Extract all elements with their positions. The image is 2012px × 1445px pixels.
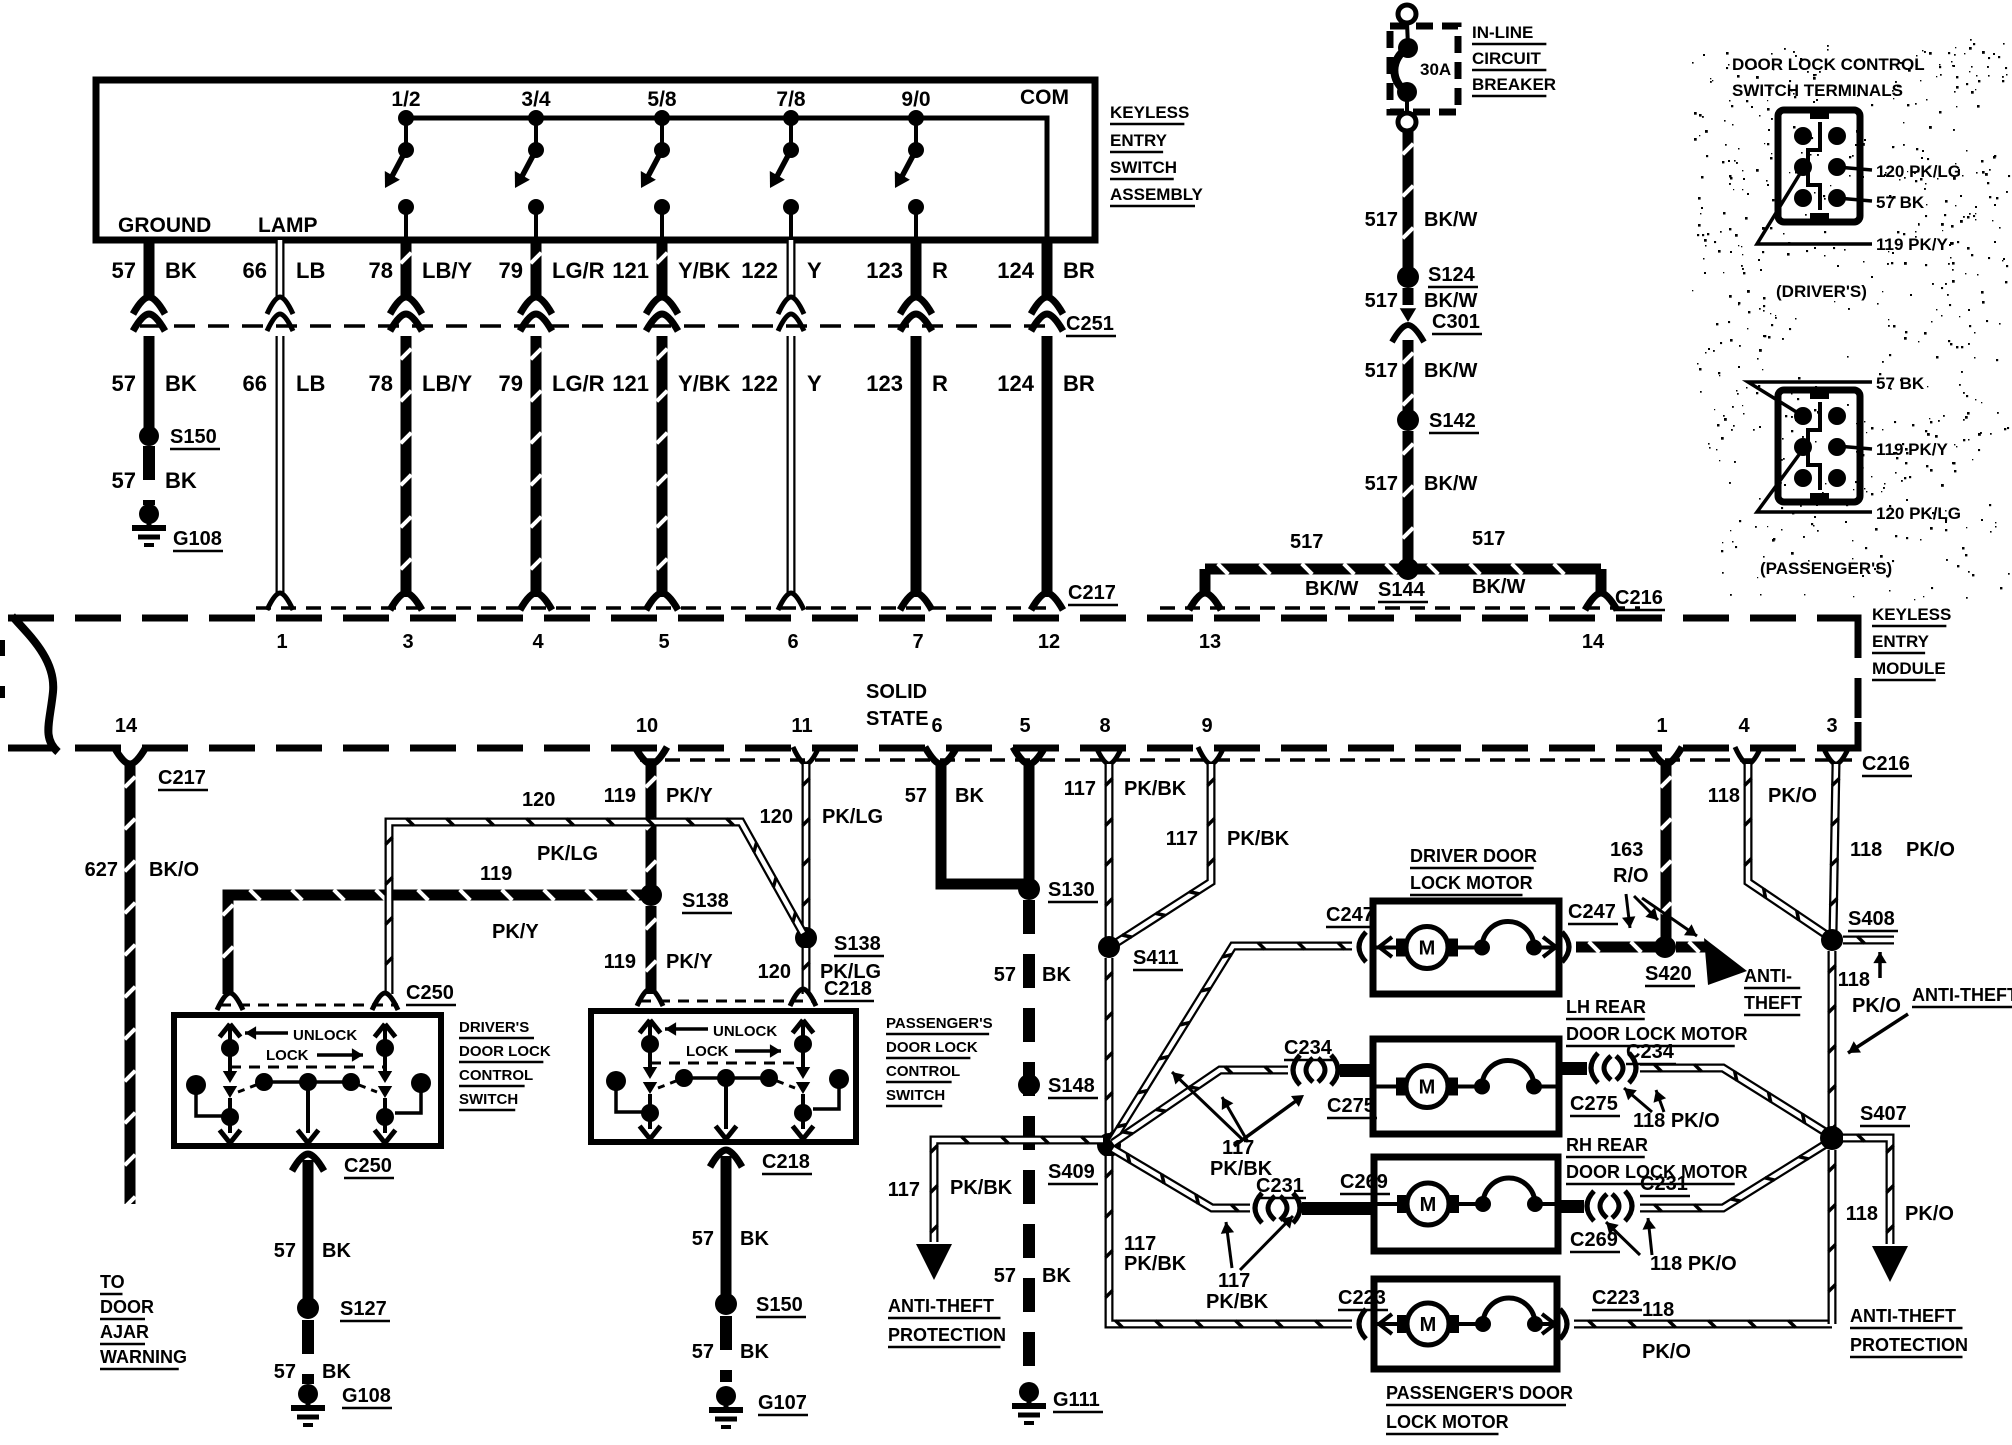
module pin 14 bottom xyxy=(114,715,146,764)
svg-text:117: 117 xyxy=(888,1179,920,1201)
splice S148 xyxy=(1018,1074,1098,1098)
label 57 BK xyxy=(112,468,197,493)
svg-text:BK/W: BK/W xyxy=(1424,360,1477,382)
svg-text:LG/R: LG/R xyxy=(552,258,605,283)
svg-text:LB: LB xyxy=(296,258,325,283)
svg-text:163: 163 xyxy=(1610,839,1643,861)
wire 120 PK/LG S138 to passenger switch xyxy=(802,948,809,994)
svg-text:DOOR LOCK CONTROL: DOOR LOCK CONTROL xyxy=(1732,55,1925,74)
RH rear door lock motor M xyxy=(1374,1157,1558,1251)
module pin 4 bottom xyxy=(1735,715,1761,764)
label 57 BK row2 xyxy=(112,371,197,396)
svg-text:1: 1 xyxy=(276,631,287,653)
label LAMP xyxy=(258,214,318,237)
label 121 Y/BK row1 xyxy=(612,258,730,283)
wire 78 LB/Y upper segment xyxy=(401,240,412,298)
svg-text:BK/W: BK/W xyxy=(1305,578,1358,600)
svg-text:C275: C275 xyxy=(1570,1093,1618,1115)
svg-text:S127: S127 xyxy=(340,1298,387,1320)
connector C217 terminal wire 121 xyxy=(646,593,678,610)
switch 7/8 xyxy=(770,88,806,240)
svg-text:124: 124 xyxy=(997,371,1034,396)
svg-text:PK/BK: PK/BK xyxy=(950,1177,1013,1199)
svg-text:119 PK/Y: 119 PK/Y xyxy=(1876,235,1948,254)
switch common bus xyxy=(406,118,1047,240)
svg-text:118: 118 xyxy=(1850,839,1882,861)
connector C234/C275 right xyxy=(1559,1041,1676,1116)
svg-text:CONTROL: CONTROL xyxy=(459,1067,533,1084)
ground G111 xyxy=(1012,1382,1103,1423)
svg-text:1: 1 xyxy=(1656,715,1667,737)
connector C217 terminal wire 122 xyxy=(778,593,804,610)
label (PASSENGER'S) xyxy=(1760,559,1892,578)
svg-text:G107: G107 xyxy=(758,1392,807,1414)
wire 118 PK/O LH motor to S407 xyxy=(1640,1064,1830,1135)
splice S138 on 120 PK/LG xyxy=(795,927,884,956)
module pin 5 xyxy=(658,631,669,653)
wire 57 BK passenger switch to S150 xyxy=(721,1156,732,1296)
wire 123 R lower segment xyxy=(911,336,922,597)
svg-text:PROTECTION: PROTECTION xyxy=(1850,1335,1968,1355)
connector C217 terminal wire 123 xyxy=(900,593,932,610)
label 122 Y row2 xyxy=(741,371,822,396)
svg-text:BK: BK xyxy=(322,1361,351,1383)
svg-text:118: 118 xyxy=(1708,785,1740,807)
module pin 4 xyxy=(532,631,544,653)
svg-text:Y: Y xyxy=(807,258,822,283)
wire 57 BK pin 6 xyxy=(941,764,1034,884)
label 66 LB row2 xyxy=(243,371,326,396)
driver switch left terminal xyxy=(220,1024,241,1057)
connector C216 dashed line top xyxy=(1160,606,1640,610)
label SOLID STATE xyxy=(866,681,929,730)
driver switch outer contacts xyxy=(186,1073,431,1116)
keyless entry module outline top xyxy=(8,615,1858,622)
wire 117 PK/BK S409 to driver door motor xyxy=(1112,942,1352,1141)
svg-text:ANTI-THEFT: ANTI-THEFT xyxy=(1850,1306,1956,1326)
svg-text:S407: S407 xyxy=(1860,1103,1907,1125)
connector C250 bottom of driver switch xyxy=(292,1154,394,1178)
keyless entry module left brace xyxy=(12,616,58,752)
svg-text:57: 57 xyxy=(994,964,1016,986)
connector C217 terminal wire 78 xyxy=(390,593,422,610)
svg-text:BK: BK xyxy=(165,371,197,396)
svg-text:57: 57 xyxy=(274,1361,296,1383)
svg-text:Y/BK: Y/BK xyxy=(678,258,731,283)
label driver door lock control switch xyxy=(459,1019,551,1110)
svg-text:C223: C223 xyxy=(1592,1287,1640,1309)
svg-text:UNLOCK: UNLOCK xyxy=(293,1027,357,1044)
splice S142 xyxy=(1397,409,1479,433)
svg-text:C247: C247 xyxy=(1326,904,1374,926)
module pin 11 bottom xyxy=(791,715,819,764)
driver switch middle dashed line xyxy=(230,1066,385,1069)
module pin 6 xyxy=(787,631,798,653)
svg-text:(DRIVER'S): (DRIVER'S) xyxy=(1776,282,1867,301)
wire 627 BK/O pin 14 xyxy=(125,764,136,1207)
svg-text:RH REAR: RH REAR xyxy=(1566,1135,1648,1155)
svg-text:(PASSENGER'S): (PASSENGER'S) xyxy=(1760,559,1892,578)
svg-text:GROUND: GROUND xyxy=(118,214,211,237)
wire 57 BK to S150 xyxy=(144,336,155,428)
svg-text:6: 6 xyxy=(787,631,798,653)
connector C223 left xyxy=(1338,1287,1392,1339)
svg-text:CIRCUIT: CIRCUIT xyxy=(1472,49,1542,68)
connector C216/C217 dashed line (module bottom) xyxy=(640,758,1852,762)
svg-text:117: 117 xyxy=(1166,828,1198,850)
wire 119 PK/Y S138 to passenger switch xyxy=(646,906,657,994)
svg-text:LH REAR: LH REAR xyxy=(1566,997,1646,1017)
svg-text:57: 57 xyxy=(112,468,136,493)
module pin 5 bottom xyxy=(1013,715,1045,764)
label 122 Y row1 xyxy=(741,258,822,283)
keyless entry module outline right xyxy=(1826,618,1858,748)
svg-text:6: 6 xyxy=(931,715,942,737)
svg-text:517: 517 xyxy=(1365,290,1398,312)
svg-text:LOCK MOTOR: LOCK MOTOR xyxy=(1410,873,1533,893)
label 66 LB row1 xyxy=(243,258,326,283)
svg-text:UNLOCK: UNLOCK xyxy=(713,1023,777,1040)
label 57 BK xyxy=(274,1240,352,1262)
svg-text:117: 117 xyxy=(1218,1270,1250,1292)
wire 57 BK pin 5 xyxy=(1024,764,1035,882)
label 517 right xyxy=(1472,528,1505,550)
splice S144 xyxy=(1378,558,1428,602)
module pin 3 bottom xyxy=(1823,715,1849,764)
module pin 6 bottom xyxy=(925,715,957,764)
connector C251 terminals wire 123 xyxy=(900,297,932,331)
anti-theft arrowhead right xyxy=(1704,938,1747,985)
connector C251 terminals wire 121 xyxy=(646,297,678,331)
svg-text:119: 119 xyxy=(604,951,636,973)
svg-text:CONTROL: CONTROL xyxy=(886,1063,960,1080)
passenger switch center pole xyxy=(716,1078,737,1139)
wire 66 LB upper segment xyxy=(276,240,285,298)
connector C217 terminal wire 124 xyxy=(1031,593,1063,610)
svg-text:13: 13 xyxy=(1199,631,1221,653)
svg-text:PK/LG: PK/LG xyxy=(822,806,883,828)
wire 119 PK/Y horizontal branch xyxy=(223,890,651,994)
label 517 BK/W xyxy=(1365,290,1478,312)
svg-text:117: 117 xyxy=(1222,1137,1254,1159)
svg-text:121: 121 xyxy=(612,371,649,396)
svg-text:123: 123 xyxy=(866,258,903,283)
driver door lock motor M xyxy=(1373,901,1559,994)
svg-text:C223: C223 xyxy=(1338,1287,1386,1309)
svg-text:122: 122 xyxy=(741,258,778,283)
svg-text:5/8: 5/8 xyxy=(647,88,677,111)
svg-text:117: 117 xyxy=(1064,778,1096,800)
label ANTI-THEFT right xyxy=(1912,985,2012,1007)
label 163 R/O with arrows xyxy=(1610,839,1697,936)
wire 121 Y/BK lower segment xyxy=(657,336,668,597)
edge artifact marks xyxy=(0,640,5,698)
label 120 PK/LG xyxy=(760,806,884,828)
module pin 14 stub xyxy=(1585,569,1617,610)
svg-text:5: 5 xyxy=(1019,715,1030,737)
label 118 PK/O pin3 xyxy=(1850,839,1955,861)
svg-text:COM: COM xyxy=(1020,86,1069,109)
svg-text:PK/BK: PK/BK xyxy=(1206,1291,1269,1313)
label 120 horizontal xyxy=(522,789,555,811)
connector C251 terminals wire 79 xyxy=(520,297,552,331)
module pin 14 number top xyxy=(1582,631,1605,653)
svg-text:118: 118 xyxy=(1846,1203,1878,1225)
wire 117 PK/BK S409 to passenger door motor xyxy=(1105,1156,1352,1328)
label 517 BK/W xyxy=(1365,473,1478,495)
svg-text:STATE: STATE xyxy=(866,708,929,730)
svg-text:S409: S409 xyxy=(1048,1161,1095,1183)
svg-text:57: 57 xyxy=(274,1240,296,1262)
splice S127 xyxy=(297,1297,390,1321)
label (DRIVER'S) xyxy=(1776,282,1867,301)
wire 118 PK/O passenger motor to S407 xyxy=(1574,1320,1832,1327)
svg-text:WARNING: WARNING xyxy=(100,1347,187,1367)
label 57 BK xyxy=(692,1341,770,1363)
svg-text:C218: C218 xyxy=(762,1151,810,1173)
svg-text:78: 78 xyxy=(369,258,393,283)
splice S124 xyxy=(1397,264,1478,288)
splice S150 passenger xyxy=(715,1293,806,1317)
passenger switch outer contacts xyxy=(606,1069,849,1112)
wire 117 PK/BK anti-theft branch xyxy=(930,1136,1103,1242)
connector C251 dashed line xyxy=(140,324,1058,328)
label RH REAR DOOR LOCK MOTOR xyxy=(1566,1135,1748,1184)
label 79 LG/R row2 xyxy=(499,371,605,396)
label DOOR LOCK CONTROL SWITCH TERMINALS xyxy=(1732,55,1925,100)
label 118 PK/O with arrows (C234) xyxy=(1624,1088,1720,1132)
connector C251 terminals wire 124 xyxy=(1031,297,1063,331)
bus wire 517 BK/W S144 xyxy=(1205,564,1601,575)
svg-text:S130: S130 xyxy=(1048,879,1095,901)
svg-text:57: 57 xyxy=(692,1228,714,1250)
driver door lock control switch box xyxy=(174,1015,441,1146)
label 627 BK/O xyxy=(85,859,199,881)
label 123 R row2 xyxy=(866,371,948,396)
label 517 BK/W xyxy=(1365,209,1478,231)
svg-text:120: 120 xyxy=(522,789,555,811)
connector C251 terminals wire 66 xyxy=(267,297,293,331)
svg-text:LB/Y: LB/Y xyxy=(422,371,472,396)
svg-text:9/0: 9/0 xyxy=(901,88,930,111)
svg-text:KEYLESS: KEYLESS xyxy=(1110,103,1189,122)
svg-text:C250: C250 xyxy=(406,982,454,1004)
switch 9/0 xyxy=(895,88,931,240)
svg-text:PK/O: PK/O xyxy=(1852,995,1901,1017)
splice S411 xyxy=(1098,936,1183,970)
svg-text:BK/W: BK/W xyxy=(1424,290,1477,312)
svg-text:C301: C301 xyxy=(1432,311,1480,333)
svg-text:120: 120 xyxy=(760,806,793,828)
label 117 PK/BK branch xyxy=(888,1177,1013,1201)
svg-text:BREAKER: BREAKER xyxy=(1472,75,1556,94)
svg-text:LB/Y: LB/Y xyxy=(422,258,472,283)
svg-text:G108: G108 xyxy=(173,528,222,550)
wire 119 PK/Y pin 10 vertical xyxy=(646,764,657,890)
svg-text:14: 14 xyxy=(1582,631,1605,653)
svg-text:C217: C217 xyxy=(1068,582,1116,604)
connector C301 xyxy=(1392,308,1482,342)
svg-text:57: 57 xyxy=(112,371,136,396)
svg-text:118 PK/O: 118 PK/O xyxy=(1633,1110,1720,1132)
svg-text:57 BK: 57 BK xyxy=(1876,374,1925,393)
wire 117 PK/BK S409 to LH rear motor xyxy=(1113,1066,1288,1143)
wire 124 BR upper segment xyxy=(1042,240,1053,298)
wire 57 BK dashed S127 to G108 xyxy=(302,1320,314,1384)
connector C247 left xyxy=(1326,904,1392,962)
svg-text:ANTI-: ANTI- xyxy=(1744,966,1792,986)
label IN-LINE CIRCUIT BREAKER xyxy=(1472,23,1556,96)
module pin 12 xyxy=(1038,631,1060,653)
module pin 13 number xyxy=(1199,631,1221,653)
svg-text:DRIVER'S: DRIVER'S xyxy=(459,1019,529,1036)
label KEYLESS ENTRY MODULE xyxy=(1872,605,1951,680)
module pin 9 bottom xyxy=(1198,715,1224,764)
svg-text:118: 118 xyxy=(1838,969,1870,991)
svg-text:119 PK/Y: 119 PK/Y xyxy=(1876,440,1948,459)
svg-text:PK/O: PK/O xyxy=(1768,785,1817,807)
wire 517 BK/W S124 to C301 xyxy=(1403,288,1414,305)
door lock control switch terminals connector (driver's) xyxy=(1757,110,1961,254)
svg-text:S411: S411 xyxy=(1133,947,1179,969)
wire 123 R upper segment xyxy=(911,240,922,298)
wire 121 Y/BK upper segment xyxy=(657,240,668,298)
svg-text:BK: BK xyxy=(1042,1265,1071,1287)
svg-text:DOOR: DOOR xyxy=(100,1297,154,1317)
svg-text:517: 517 xyxy=(1290,531,1323,553)
label C250 top xyxy=(406,982,456,1005)
wire 57 BK upper segment xyxy=(144,240,155,298)
passenger switch right terminal xyxy=(793,1020,814,1053)
label C216 bottom right xyxy=(1862,753,1912,776)
driver switch top connector chevrons xyxy=(217,993,398,1010)
wire 117 PK/BK S411 to S409 xyxy=(1105,958,1112,1140)
connector C218 dashed (top of passenger switch) xyxy=(640,1000,816,1003)
svg-text:30A: 30A xyxy=(1420,60,1451,79)
svg-text:PK/Y: PK/Y xyxy=(666,951,713,973)
driver switch right terminal xyxy=(375,1024,396,1057)
svg-text:57 BK: 57 BK xyxy=(1876,193,1925,212)
svg-text:ANTI-THEFT: ANTI-THEFT xyxy=(888,1296,994,1316)
driver switch LOCK arrow xyxy=(266,1047,363,1064)
svg-text:LOCK: LOCK xyxy=(266,1047,309,1064)
label 120 PK/LG lower xyxy=(758,961,882,983)
svg-text:IN-LINE: IN-LINE xyxy=(1472,23,1533,42)
label 121 Y/BK row2 xyxy=(612,371,730,396)
ground G107 xyxy=(709,1386,808,1427)
wire 57 BK driver switch to S127 xyxy=(303,1160,314,1300)
module pin 13 stub xyxy=(1189,569,1221,610)
svg-text:LB: LB xyxy=(296,371,325,396)
label 119 PK/Y xyxy=(604,785,714,807)
svg-text:517: 517 xyxy=(1365,473,1398,495)
svg-text:DRIVER DOOR: DRIVER DOOR xyxy=(1410,846,1537,866)
svg-text:C251: C251 xyxy=(1066,313,1114,335)
connector C218 bottom of passenger switch xyxy=(710,1150,812,1174)
svg-text:S420: S420 xyxy=(1645,963,1692,985)
label C218 top xyxy=(824,978,874,1001)
connector C231/C269 left xyxy=(1255,1171,1390,1223)
svg-text:PK/BK: PK/BK xyxy=(1227,828,1290,850)
splice S409 xyxy=(1048,1133,1121,1184)
svg-text:M: M xyxy=(1420,1314,1437,1336)
passenger switch UNLOCK arrow xyxy=(665,1022,777,1040)
label 119 horizontal xyxy=(480,863,512,885)
wire 117 PK/BK S409 to RH rear motor xyxy=(1113,1149,1250,1212)
svg-text:627: 627 xyxy=(85,859,118,881)
svg-text:BK/W: BK/W xyxy=(1424,209,1477,231)
wire 122 Y upper segment xyxy=(787,240,796,298)
svg-text:LOCK MOTOR: LOCK MOTOR xyxy=(1386,1412,1509,1432)
driver switch contact row xyxy=(238,1073,377,1092)
wire 57 BK dashed to G108 xyxy=(143,446,155,505)
wire 517 BK/W S142 to S144 xyxy=(1403,431,1414,563)
passenger switch left terminal xyxy=(640,1020,661,1053)
switch 5/8 xyxy=(641,88,677,240)
svg-text:S144: S144 xyxy=(1378,579,1426,601)
wire 120 PK/LG diagonal + horizontal to driver switch xyxy=(385,818,803,994)
svg-text:119: 119 xyxy=(480,863,512,885)
passenger switch contact row xyxy=(658,1069,795,1088)
connector C234/C275 left xyxy=(1284,1037,1377,1118)
connector C250 dashed (top of driver switch) xyxy=(220,1004,398,1007)
wire 118 PK/O pin 3 xyxy=(1830,764,1839,934)
label C216 top xyxy=(1615,587,1665,610)
label 57 BK xyxy=(994,1265,1072,1287)
switch 1/2 xyxy=(385,88,421,240)
wire 118 PK/O S407 down to passenger motor xyxy=(1828,1150,1835,1324)
module pin 10 bottom xyxy=(635,715,667,764)
connector C251 terminals wire 57 xyxy=(133,297,165,331)
svg-text:AJAR: AJAR xyxy=(100,1322,149,1342)
connector C251 terminals wire 78 xyxy=(390,297,422,331)
label PASSENGER'S DOOR LOCK MOTOR xyxy=(1386,1383,1573,1434)
svg-text:Y/BK: Y/BK xyxy=(678,371,731,396)
label BK/W right xyxy=(1472,576,1525,598)
splice S130 xyxy=(1018,878,1098,902)
svg-text:118 PK/O: 118 PK/O xyxy=(1650,1253,1737,1275)
label 123 R row1 xyxy=(866,258,948,283)
svg-text:M: M xyxy=(1420,1194,1437,1216)
svg-text:C231: C231 xyxy=(1640,1173,1688,1195)
svg-text:S148: S148 xyxy=(1048,1075,1095,1097)
svg-text:57: 57 xyxy=(692,1341,714,1363)
wire 66 LB lower segment xyxy=(276,336,285,597)
splice S408 xyxy=(1821,908,1898,951)
svg-text:BR: BR xyxy=(1063,371,1095,396)
connector C217 terminal wire 66 xyxy=(267,593,293,610)
wire 124 BR lower segment xyxy=(1042,336,1053,597)
svg-text:R: R xyxy=(932,258,948,283)
wire 517 BK/W breaker to S124 xyxy=(1403,131,1414,272)
label 118 PK/O right branch xyxy=(1846,1203,1954,1225)
connector C223 right xyxy=(1542,1287,1642,1339)
svg-text:C231: C231 xyxy=(1256,1175,1304,1197)
label 124 BR row2 xyxy=(997,371,1095,396)
svg-text:BK: BK xyxy=(955,785,984,807)
label 78 LB/Y row2 xyxy=(369,371,473,396)
label 117 PK/BK lower xyxy=(1124,1233,1187,1275)
label 57 BK row1 xyxy=(112,258,197,283)
wire 118 PK/O RH motor to S407 xyxy=(1640,1142,1829,1212)
module pin 1 xyxy=(276,631,287,653)
svg-text:PASSENGER'S: PASSENGER'S xyxy=(886,1015,993,1032)
driver switch left pole xyxy=(220,1048,241,1143)
label 57 BK xyxy=(692,1228,770,1250)
svg-text:Y: Y xyxy=(807,371,822,396)
svg-text:PK/Y: PK/Y xyxy=(492,921,539,943)
label 118 PK/O with arrows (C231) xyxy=(1606,1218,1737,1275)
